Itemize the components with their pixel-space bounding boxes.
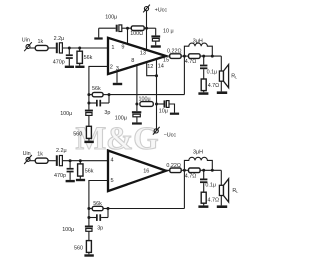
capacitor 10u top (supply bypass): [151, 35, 160, 45]
pin 12 wire: [147, 62, 157, 76]
wire to pin 9: [127, 28, 129, 44]
svg-text:16: 16: [143, 168, 149, 174]
svg-text:2: 2: [110, 65, 113, 71]
junction dot +Ucc node: [145, 27, 148, 30]
resistor 56k input (upper): [77, 48, 82, 66]
resistor 4.7ohm series (upper): [189, 54, 201, 59]
wire input to R 1k (upper): [30, 47, 35, 49]
junction dot -Ucc node: [155, 103, 158, 106]
junction dot pin9 node: [126, 27, 129, 30]
svg-text:100μ: 100μ: [115, 115, 127, 121]
capacitor 100u box pin8 to -Ucc: [140, 102, 153, 107]
speaker RL (lower): [219, 170, 228, 205]
svg-text:0.1μ: 0.1μ: [205, 182, 216, 188]
capacitor 470p (lower): [67, 161, 74, 180]
op-amp U2 (lower): [108, 151, 166, 192]
svg-text:4.7Ω: 4.7Ω: [208, 83, 220, 89]
resistor 56k feedback (upper): [89, 92, 109, 96]
svg-text:100Ω: 100Ω: [130, 31, 143, 37]
svg-text:3μH: 3μH: [193, 38, 203, 44]
svg-text:14: 14: [158, 63, 164, 69]
feedback wire horizontal (upper): [109, 94, 184, 96]
output wire apex (upper): [165, 55, 170, 57]
ground (10u top): [151, 45, 161, 47]
junction dot pin8 node: [135, 103, 138, 106]
pin 8 wire down: [136, 65, 138, 111]
svg-text:1k: 1k: [37, 151, 43, 157]
svg-text:10μ: 10μ: [159, 109, 168, 115]
svg-text:56k: 56k: [92, 86, 101, 92]
wire 4.7 to speaker (upper): [200, 55, 221, 57]
resistor 0.22ohm (upper): [170, 54, 181, 59]
wire input to R 1k (lower): [30, 160, 35, 162]
junction dot output feedback tap (upper): [183, 55, 186, 58]
wire 1k to C2.2u (upper): [48, 47, 56, 49]
capacitor 3p (lower): [87, 209, 108, 221]
feedback wire down (upper): [183, 56, 185, 95]
capacitor 100u feedback series (lower): [85, 218, 93, 241]
pin 14 wire down: [156, 59, 158, 130]
input terminal (upper): [24, 42, 32, 51]
input terminal (lower): [24, 155, 32, 164]
svg-text:100μ: 100μ: [139, 97, 151, 103]
wire gnd to C100u top: [99, 27, 116, 29]
ground (56k input upper): [75, 66, 84, 68]
pin 3 ground stub: [113, 71, 122, 85]
junction dot fb right (lower): [107, 207, 110, 210]
capacitor 0.1u zobel (upper): [200, 56, 207, 79]
inductor 3uH (upper): [184, 43, 212, 56]
junction dot fb right (upper): [108, 93, 111, 96]
capacitor 100u top (upper bias): [116, 25, 122, 32]
pin 5 wire (lower): [89, 181, 108, 209]
svg-text:5: 5: [111, 178, 114, 184]
capacitor 100u feedback series (upper): [85, 103, 93, 126]
wire C2.2u to pin1 (upper): [62, 47, 108, 49]
wire R100 to +Ucc node: [144, 27, 156, 29]
svg-text:0.1μ: 0.1μ: [207, 69, 218, 75]
svg-text:4.7Ω: 4.7Ω: [208, 197, 220, 203]
svg-text:12: 12: [147, 64, 153, 70]
junction dot (upper input a): [68, 47, 71, 50]
wire 4.7 to speaker (lower): [200, 169, 221, 171]
wire 1k to C2.2u (lower): [48, 160, 56, 162]
ground (560 lower): [84, 254, 93, 256]
ground (zobel lower): [198, 205, 208, 208]
junction dot (upper input b): [78, 47, 81, 50]
wire to pin 13 supply: [146, 28, 148, 50]
svg-text:56k: 56k: [84, 55, 93, 61]
junction dot output feedback tap (lower): [183, 169, 186, 172]
ground (470p upper): [65, 66, 74, 68]
svg-text:560: 560: [73, 132, 82, 138]
svg-text:56k: 56k: [93, 201, 102, 207]
inductor 3uH (lower): [184, 157, 212, 170]
resistor 4.7ohm zobel (lower): [201, 192, 206, 205]
wire C2.2u to pin4 (lower): [62, 160, 108, 162]
feedback wire horizontal (lower): [108, 208, 184, 210]
resistor 100ohm (upper): [131, 26, 144, 31]
junction dot zobel tap (lower): [202, 169, 205, 172]
svg-text:8: 8: [131, 58, 134, 64]
ground (top-left bias): [94, 28, 102, 39]
svg-text:2.2μ: 2.2μ: [54, 36, 65, 42]
wire 0.22 to 4.7 (upper): [181, 55, 188, 57]
ground (470p lower): [66, 180, 75, 182]
svg-text:15: 15: [163, 57, 169, 63]
svg-text:0.22Ω: 0.22Ω: [167, 49, 182, 55]
capacitor 470p (upper): [66, 48, 73, 66]
svg-text:2.2μ: 2.2μ: [56, 148, 67, 154]
output wire apex (lower): [165, 169, 170, 171]
junction dot (lower input b): [79, 159, 82, 162]
resistor 1k (lower): [35, 158, 48, 163]
svg-text:Uin: Uin: [22, 37, 30, 43]
svg-text:3μH: 3μH: [193, 150, 203, 156]
capacitor 2.2u electrolytic (upper): [56, 43, 63, 54]
capacitor 100u pin8 bypass to ground: [132, 111, 141, 122]
capacitor 0.1u zobel (lower): [200, 170, 207, 192]
svg-text:9: 9: [121, 44, 124, 50]
svg-text:4: 4: [111, 158, 114, 164]
capacitor 3p (upper): [87, 95, 109, 107]
svg-text:56k: 56k: [85, 168, 94, 174]
ground (pin8 bypass): [132, 122, 142, 124]
svg-text:4.7Ω: 4.7Ω: [185, 173, 197, 179]
resistor 56k feedback (lower): [89, 206, 108, 210]
svg-text:470p: 470p: [54, 173, 66, 179]
svg-text:560: 560: [74, 245, 83, 251]
resistor 560 (upper): [86, 126, 91, 140]
junction dot zobel tap (upper): [202, 55, 205, 58]
pin 2 wire (upper): [89, 66, 108, 94]
junction dot inductor right (lower): [211, 169, 214, 172]
resistor 4.7ohm zobel (upper): [201, 79, 206, 92]
svg-text:+Ucc: +Ucc: [155, 8, 168, 14]
resistor 56k input (lower): [78, 161, 83, 179]
junction dot fb left (upper): [87, 93, 90, 96]
junction dot pins 12-14: [155, 74, 158, 77]
wire +Ucc node to C10u top: [155, 28, 157, 35]
op-amp U1 (upper): [108, 38, 166, 74]
svg-text:470p: 470p: [53, 59, 65, 65]
svg-text:0.22Ω: 0.22Ω: [166, 163, 181, 169]
ground (560 upper): [84, 141, 93, 143]
ground (56k input lower): [76, 179, 85, 181]
svg-text:100μ: 100μ: [60, 111, 72, 117]
ground (zobel upper): [198, 92, 208, 95]
wire C100u to R100 (upper): [122, 27, 132, 29]
svg-text:3p: 3p: [97, 226, 103, 232]
resistor 1k (upper): [35, 45, 48, 50]
svg-text:Uin: Uin: [23, 151, 31, 157]
svg-text:3p: 3p: [104, 110, 110, 116]
svg-text:−Ucc: −Ucc: [164, 133, 177, 139]
capacitor 10u -Ucc bypass: [157, 100, 175, 112]
svg-text:13: 13: [140, 51, 146, 57]
svg-text:100μ: 100μ: [62, 227, 74, 233]
resistor 560 (lower): [86, 241, 91, 255]
ground (speaker upper): [217, 91, 227, 94]
junction dot fb left (lower): [87, 207, 90, 210]
ground (10u -Ucc): [170, 113, 179, 115]
svg-text:10 μ: 10 μ: [163, 28, 174, 34]
capacitor 2.2u electrolytic (lower): [56, 155, 63, 166]
speaker RL (upper): [219, 56, 228, 91]
resistor 0.22ohm (lower): [170, 168, 181, 173]
-Ucc terminal: [153, 127, 160, 135]
junction dot inductor right (upper): [211, 55, 214, 58]
feedback wire down (lower): [183, 170, 185, 208]
svg-text:100μ: 100μ: [105, 14, 117, 20]
ground (speaker lower): [217, 205, 227, 208]
junction dot (lower input a): [69, 159, 72, 162]
svg-text:1: 1: [111, 45, 114, 51]
wire 0.22 to 4.7 (lower): [181, 169, 188, 171]
svg-text:4.7Ω: 4.7Ω: [185, 59, 197, 65]
resistor 4.7ohm series (lower): [189, 168, 201, 173]
svg-text:1k: 1k: [38, 39, 44, 45]
+Ucc terminal: [143, 5, 150, 29]
